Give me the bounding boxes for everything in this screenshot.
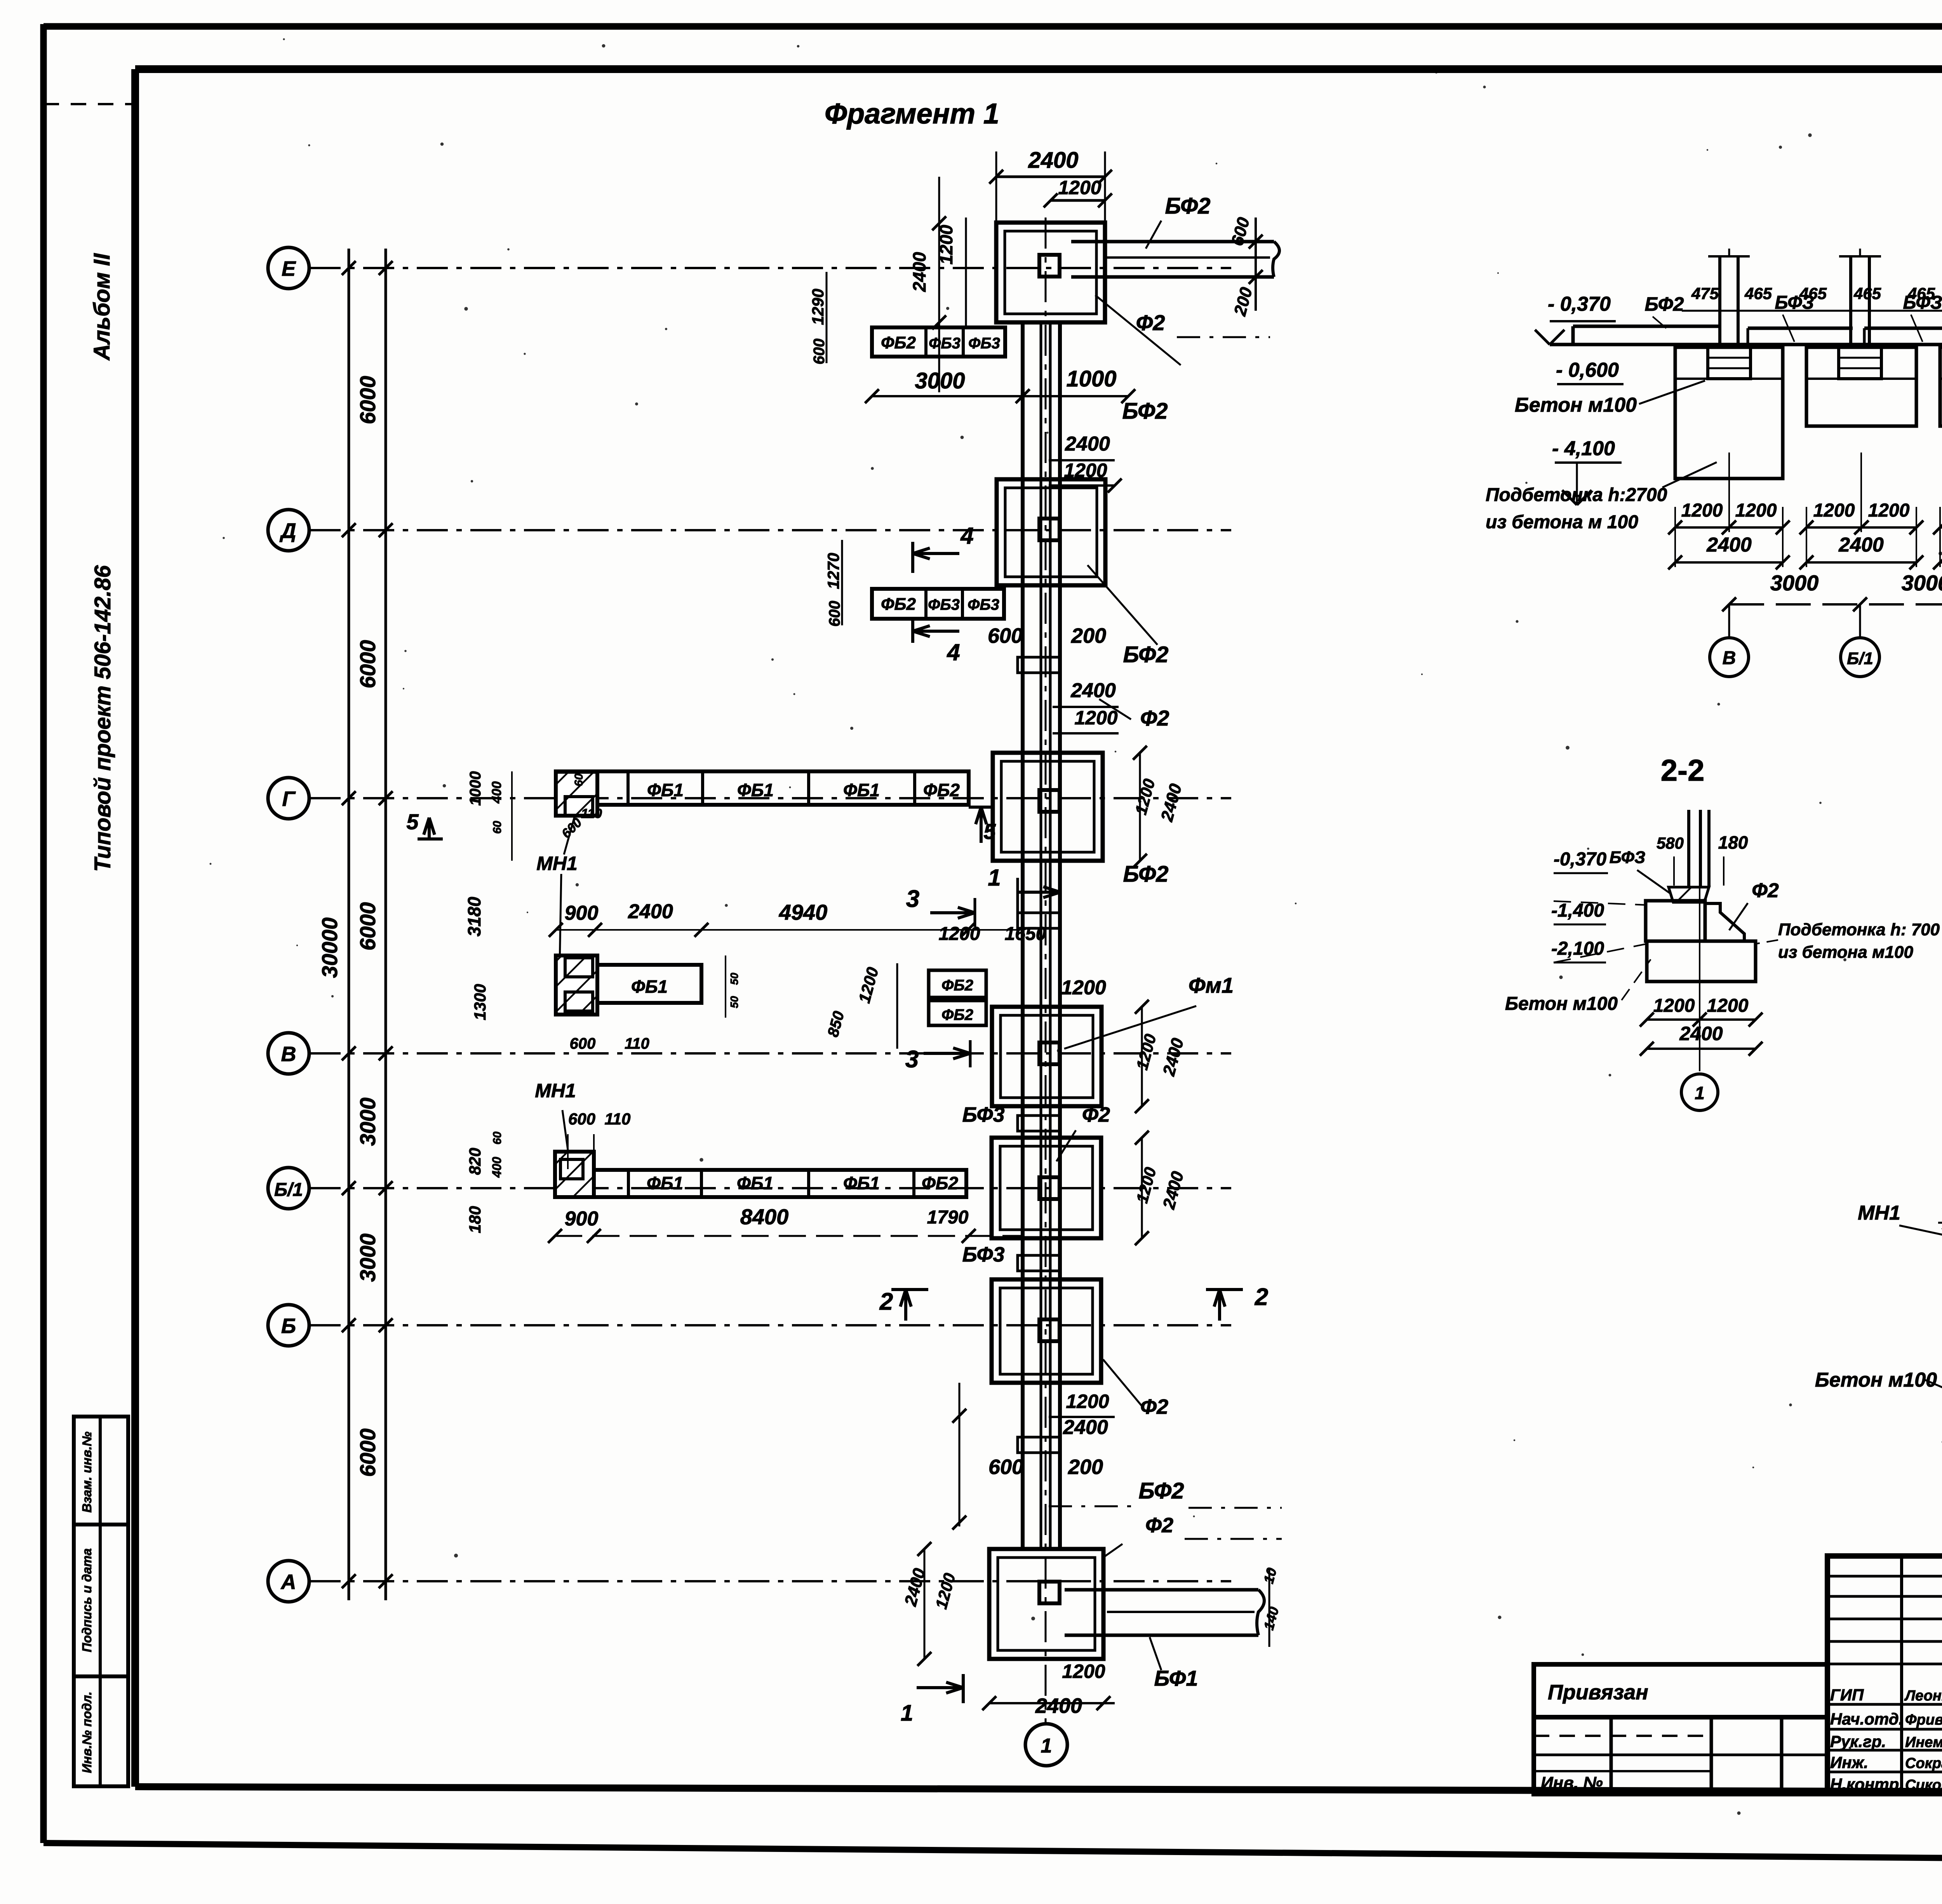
column mark at G xyxy=(1039,790,1060,812)
svg-text:3000: 3000 xyxy=(1902,571,1942,595)
svg-text:Подбетонка h: 700: Подбетонка h: 700 xyxy=(1778,920,1940,939)
scan speckle xyxy=(946,307,949,310)
svg-text:ФБ1: ФБ1 xyxy=(631,976,668,997)
block row at axis G west wing xyxy=(556,771,969,805)
outer border left xyxy=(40,24,47,1843)
svg-text:БФЗ: БФЗ xyxy=(1775,292,1814,313)
block row FB2 FB3 FB3 north of wall xyxy=(872,327,1005,357)
outer border top xyxy=(44,23,1942,30)
dim 3000 1000 under E xyxy=(872,395,1128,397)
svg-text:Е: Е xyxy=(282,257,296,280)
axis А circle xyxy=(268,1561,309,1602)
svg-text:1300: 1300 xyxy=(471,984,489,1020)
svg-text:Подпись и дата: Подпись и дата xyxy=(80,1548,94,1652)
svg-text:Нач.отд.: Нач.отд. xyxy=(1830,1710,1903,1728)
svg-text:ФБ2: ФБ2 xyxy=(941,1006,973,1023)
section 1-1 ground line xyxy=(1550,343,1942,346)
beam BF3 a xyxy=(1748,327,1853,330)
svg-text:БФ2: БФ2 xyxy=(1645,293,1684,315)
svg-text:Д: Д xyxy=(280,519,296,543)
section 2-2 bottom slab xyxy=(1647,941,1756,982)
svg-text:30000: 30000 xyxy=(317,917,342,978)
svg-text:1200: 1200 xyxy=(1066,1391,1109,1412)
svg-text:3180: 3180 xyxy=(464,896,484,936)
svg-text:2400: 2400 xyxy=(1028,148,1078,173)
svg-text:6000: 6000 xyxy=(355,376,380,425)
svg-text:2: 2 xyxy=(1255,1284,1268,1311)
svg-text:1200: 1200 xyxy=(1813,500,1855,521)
svg-text:2-2: 2-2 xyxy=(1661,753,1705,787)
dim chain inner xyxy=(385,249,387,1600)
svg-text:Ф2: Ф2 xyxy=(1082,1103,1110,1126)
svg-text:1200: 1200 xyxy=(1062,1660,1105,1682)
foundation F2 at axis A xyxy=(989,1549,1103,1659)
svg-text:2400: 2400 xyxy=(1035,1694,1082,1718)
dim 600 1290 far left of E xyxy=(826,272,828,363)
svg-text:Фм1: Фм1 xyxy=(1189,973,1234,997)
column mark at B xyxy=(1039,1319,1060,1341)
svg-text:6000: 6000 xyxy=(355,640,380,689)
svg-text:600: 600 xyxy=(988,1455,1023,1479)
foundation pit at B/1 xyxy=(1806,347,1916,426)
svg-text:ФБ3: ФБ3 xyxy=(968,596,999,613)
svg-text:50: 50 xyxy=(728,973,740,985)
svg-text:60: 60 xyxy=(573,773,585,787)
svg-text:В: В xyxy=(281,1043,296,1066)
svg-text:ФБ3: ФБ3 xyxy=(928,596,960,613)
svg-text:2400: 2400 xyxy=(1838,534,1884,556)
svg-text:600: 600 xyxy=(826,601,843,627)
svg-text:4940: 4940 xyxy=(779,900,828,924)
anchor block MN1 at G xyxy=(556,772,597,816)
axis Д datum line xyxy=(310,529,1231,531)
svg-text:ФБ2: ФБ2 xyxy=(881,595,916,614)
svg-text:Н.контр.: Н.контр. xyxy=(1830,1775,1904,1793)
svg-text:1200: 1200 xyxy=(1681,500,1723,521)
svg-text:Бетон м100: Бетон м100 xyxy=(1515,394,1637,416)
svg-text:110: 110 xyxy=(605,1110,631,1128)
svg-text:1270: 1270 xyxy=(824,553,842,589)
top small dims 475 465 xyxy=(1682,310,1942,312)
svg-text:Ф2: Ф2 xyxy=(1140,706,1169,730)
svg-text:4: 4 xyxy=(960,523,973,549)
title block revision grid xyxy=(1827,1575,1942,1578)
svg-text:Ф2: Ф2 xyxy=(1136,310,1165,335)
section 2-2 column lines xyxy=(1687,810,1690,887)
svg-text:МН1: МН1 xyxy=(1858,1202,1900,1224)
svg-text:1200: 1200 xyxy=(1868,500,1910,521)
svg-text:1000: 1000 xyxy=(1066,366,1116,392)
svg-text:5: 5 xyxy=(406,809,419,834)
block row at axis B/1 west wing xyxy=(555,1170,966,1197)
section 1-1 axis circles xyxy=(1728,604,1730,637)
svg-text:400: 400 xyxy=(490,1157,504,1178)
svg-text:ФБ3: ФБ3 xyxy=(929,335,961,352)
axis Г circle xyxy=(268,778,309,819)
svg-text:Бетон м100: Бетон м100 xyxy=(1505,994,1618,1014)
svg-text:820: 820 xyxy=(466,1148,484,1175)
foundation pit at V (deep) xyxy=(1675,347,1783,479)
section 2-2 upper foundation body xyxy=(1646,901,1705,941)
svg-text:Взам. инв.№: Взам. инв.№ xyxy=(80,1431,94,1512)
svg-text:1290: 1290 xyxy=(809,289,827,325)
svg-text:Инв.№ подл.: Инв.№ подл. xyxy=(80,1692,94,1773)
svg-text:Б: Б xyxy=(281,1314,296,1338)
section 2-2 top pad hatched xyxy=(1669,887,1709,902)
svg-text:4: 4 xyxy=(947,639,960,665)
svg-text:Инв. №: Инв. № xyxy=(1541,1773,1603,1793)
foundation F2 at axis E xyxy=(996,223,1105,322)
svg-text:ФБ1: ФБ1 xyxy=(647,1173,683,1193)
svg-text:БФ2: БФ2 xyxy=(1138,1478,1184,1504)
svg-text:3000: 3000 xyxy=(355,1098,380,1146)
svg-text:2400: 2400 xyxy=(1063,1416,1108,1439)
section cut 5 right xyxy=(980,807,983,843)
svg-text:6000: 6000 xyxy=(355,1429,380,1477)
svg-text:200: 200 xyxy=(1068,1455,1103,1479)
svg-text:60: 60 xyxy=(491,821,504,834)
svg-text:Б/1: Б/1 xyxy=(274,1180,303,1200)
svg-text:1200: 1200 xyxy=(939,924,980,944)
section cut 4 upper xyxy=(913,552,959,555)
axis А datum line xyxy=(310,1580,1231,1582)
column mark at B/1 xyxy=(1039,1177,1060,1199)
svg-text:3: 3 xyxy=(905,1046,919,1073)
svg-text:БФЗ: БФЗ xyxy=(1903,292,1942,313)
wall face line left xyxy=(1021,322,1025,1551)
foundation pit at B xyxy=(1940,347,1942,426)
svg-text:ФБ1: ФБ1 xyxy=(737,780,774,800)
svg-text:ФБ2: ФБ2 xyxy=(941,977,973,994)
svg-text:Типовой проект 506-142.86: Типовой проект 506-142.86 xyxy=(90,565,115,872)
axis Д circle xyxy=(268,510,309,551)
inner frame xyxy=(135,65,1942,73)
title block outline xyxy=(1827,1556,1942,1794)
svg-text:465: 465 xyxy=(1853,284,1881,303)
section cut 4 lower xyxy=(913,630,959,633)
cross beam at B span xyxy=(1018,1255,1060,1271)
svg-text:900: 900 xyxy=(565,902,599,924)
svg-text:БФ3: БФ3 xyxy=(962,1243,1004,1266)
svg-text:БФ2: БФ2 xyxy=(1123,861,1168,887)
svg-text:3: 3 xyxy=(906,886,919,912)
svg-text:МН1: МН1 xyxy=(536,853,578,874)
dim marks right of G block xyxy=(1139,753,1141,861)
svg-text:БФ2: БФ2 xyxy=(1122,399,1168,424)
svg-text:ГИП: ГИП xyxy=(1830,1686,1864,1704)
svg-text:900: 900 xyxy=(565,1208,599,1230)
axis Б circle xyxy=(268,1305,309,1346)
svg-text:580: 580 xyxy=(1657,834,1684,852)
svg-text:600: 600 xyxy=(811,339,828,365)
foundation F2 at axis G xyxy=(993,753,1103,861)
svg-text:Леонтьев: Леонтьев xyxy=(1904,1688,1942,1704)
svg-text:Рук.гр.: Рук.гр. xyxy=(1830,1732,1886,1751)
svg-text:1000: 1000 xyxy=(467,771,484,806)
svg-text:465: 465 xyxy=(1744,284,1772,303)
dims right of B1 block xyxy=(1141,1138,1143,1238)
svg-text:Подбетонка h:2700: Подбетонка h:2700 xyxy=(1486,485,1667,505)
svg-text:600: 600 xyxy=(988,624,1023,647)
svg-text:2400: 2400 xyxy=(628,900,673,923)
svg-text:60: 60 xyxy=(491,1131,504,1145)
svg-text:из бетона м100: из бетона м100 xyxy=(1778,943,1913,962)
dim 600 1270 left of D xyxy=(841,540,843,625)
wall column axis xyxy=(1045,218,1047,1725)
svg-text:1: 1 xyxy=(901,1700,913,1726)
svg-text:БФ2: БФ2 xyxy=(1165,193,1210,219)
svg-text:1200: 1200 xyxy=(1058,177,1101,198)
axis Б/1 circle xyxy=(268,1168,309,1209)
svg-text:Сикорева: Сикорева xyxy=(1905,1777,1942,1793)
svg-text:ФБ2: ФБ2 xyxy=(881,333,916,352)
wall face line right xyxy=(1058,322,1062,1549)
beam BF2 left xyxy=(1573,325,1721,328)
svg-text:В: В xyxy=(1723,648,1736,668)
svg-text:3000: 3000 xyxy=(355,1234,380,1282)
cross beam BF at D-G span xyxy=(1018,657,1060,673)
svg-text:БФ2: БФ2 xyxy=(1123,642,1168,667)
svg-text:1200: 1200 xyxy=(1653,996,1695,1016)
section 1-1 columns xyxy=(1718,256,1721,345)
svg-text:1650: 1650 xyxy=(1005,924,1046,944)
svg-text:- 0,600: - 0,600 xyxy=(1556,359,1619,381)
column mark at E xyxy=(1039,255,1060,277)
svg-text:Привязан: Привязан xyxy=(1548,1681,1648,1704)
svg-text:ФБ3: ФБ3 xyxy=(968,335,1000,352)
svg-text:475: 475 xyxy=(1691,284,1719,303)
dim row 900 8400 1790 under B/1 xyxy=(555,1235,1021,1237)
svg-text:ФБ2: ФБ2 xyxy=(923,780,960,800)
svg-text:2400: 2400 xyxy=(1679,1023,1723,1044)
axis Е circle xyxy=(268,247,309,289)
section 2-2 centreline xyxy=(1699,887,1700,1071)
section cut 1 bottom xyxy=(917,1686,963,1689)
column mark at A xyxy=(1039,1582,1060,1603)
anchor block MN1 at B/1 xyxy=(555,1152,594,1197)
left extension privyazan box xyxy=(1534,1664,1827,1717)
svg-text:2400: 2400 xyxy=(1065,433,1110,455)
left extension lower grid xyxy=(1534,1717,1827,1794)
svg-text:400: 400 xyxy=(489,781,504,804)
label F2 leader at E xyxy=(1095,295,1181,365)
svg-text:-2,100: -2,100 xyxy=(1551,938,1604,959)
svg-text:-0,370: -0,370 xyxy=(1554,849,1606,870)
svg-text:1790: 1790 xyxy=(927,1207,969,1228)
dim 1200 2400 left of E block xyxy=(938,177,940,392)
svg-text:110: 110 xyxy=(625,1035,649,1052)
svg-text:2400: 2400 xyxy=(1070,679,1116,702)
svg-text:2400: 2400 xyxy=(909,252,929,292)
axis Е datum line xyxy=(310,267,1231,269)
outer border bottom xyxy=(44,1843,1942,1864)
svg-text:Ф2: Ф2 xyxy=(1140,1395,1168,1418)
block row FB2 FB3 FB3 at D xyxy=(872,589,1004,619)
axis В circle xyxy=(268,1033,309,1074)
svg-text:ФБ1: ФБ1 xyxy=(647,780,684,800)
cross beam at B/1 span xyxy=(1018,1116,1060,1131)
dim 2400 above E xyxy=(996,176,1105,178)
dim 600 200 at beam end xyxy=(1255,218,1257,311)
svg-text:110: 110 xyxy=(581,806,602,821)
axis Б/1 datum line xyxy=(310,1187,1231,1189)
svg-text:Ф2: Ф2 xyxy=(1145,1514,1173,1537)
dim extension line left of B-A span xyxy=(959,1383,961,1526)
sidebar dashed mark xyxy=(44,103,135,105)
svg-text:2: 2 xyxy=(879,1288,893,1315)
section cut 2 right xyxy=(1218,1290,1221,1321)
foundation F2 at axis B(V) xyxy=(992,1007,1102,1106)
svg-text:- 0,370: - 0,370 xyxy=(1548,293,1611,315)
svg-text:600: 600 xyxy=(568,1110,595,1128)
svg-text:1200: 1200 xyxy=(1074,707,1117,729)
stacked blocks FB2 FB2 xyxy=(929,970,986,997)
svg-text:БФ3: БФ3 xyxy=(962,1103,1004,1126)
dim chain outer 30000 xyxy=(348,249,350,1600)
svg-text:180: 180 xyxy=(1718,832,1748,853)
column mark at V xyxy=(1039,1043,1060,1064)
beam BF2 east of E xyxy=(1071,240,1274,244)
svg-text:Б/1: Б/1 xyxy=(1847,649,1873,668)
svg-text:Бетон м100: Бетон м100 xyxy=(1815,1369,1937,1391)
cross beam BF at G-B span xyxy=(1018,913,1060,928)
svg-text:ФБ1: ФБ1 xyxy=(843,1173,880,1193)
column mark at D xyxy=(1039,519,1060,540)
svg-text:ФБ2: ФБ2 xyxy=(922,1173,958,1193)
beam BF3 b xyxy=(1864,327,1942,330)
svg-text:Инемировская: Инемировская xyxy=(1905,1734,1942,1751)
svg-text:1200: 1200 xyxy=(1707,996,1749,1016)
axis Г datum line xyxy=(310,797,1231,799)
svg-text:1200: 1200 xyxy=(1061,976,1106,999)
dim 1200 above E xyxy=(1051,199,1105,202)
block FB1 lower at G xyxy=(597,965,701,1003)
dims left of A 2400 1200 xyxy=(924,1549,926,1659)
section cut 2 left xyxy=(904,1290,907,1321)
svg-text:1: 1 xyxy=(1695,1083,1705,1103)
svg-text:Фрив: Фрив xyxy=(1905,1712,1942,1728)
svg-text:600: 600 xyxy=(570,1035,596,1052)
svg-text:Инж.: Инж. xyxy=(1830,1753,1868,1772)
svg-text:2400: 2400 xyxy=(1706,534,1752,556)
cross beam at B-A span xyxy=(1018,1437,1060,1453)
anchor block lower at G xyxy=(556,955,597,1015)
svg-text:Г: Г xyxy=(282,787,296,811)
svg-text:50: 50 xyxy=(728,996,740,1008)
svg-text:8400: 8400 xyxy=(740,1204,789,1229)
section 2-2 axis circle 1 xyxy=(1681,1074,1718,1110)
svg-text:- 4,100: - 4,100 xyxy=(1552,437,1615,460)
axis Б datum line xyxy=(310,1324,1231,1326)
axis circle 1 bottom of plan xyxy=(1025,1724,1067,1766)
svg-text:Фрагмент 1: Фрагмент 1 xyxy=(825,97,999,130)
foundation F2 at axis B/1 xyxy=(992,1138,1101,1238)
svg-text:1: 1 xyxy=(1041,1735,1052,1757)
svg-text:6000: 6000 xyxy=(355,902,380,951)
svg-text:5: 5 xyxy=(983,819,996,844)
svg-text:1200: 1200 xyxy=(1735,500,1777,521)
svg-text:А: А xyxy=(280,1570,296,1594)
foundation beam edge lines xyxy=(1040,322,1042,1550)
svg-text:БФЗ: БФЗ xyxy=(1610,848,1646,867)
svg-text:180: 180 xyxy=(466,1206,484,1233)
foundation F2 at axis D xyxy=(997,479,1105,585)
svg-text:из бетона м 100: из бетона м 100 xyxy=(1486,512,1638,533)
svg-text:Альбом II: Альбом II xyxy=(89,253,115,361)
foundation F2 at axis B xyxy=(992,1279,1101,1383)
svg-text:Ф2: Ф2 xyxy=(1752,879,1779,902)
sidebar stamp table xyxy=(74,1417,128,1786)
svg-text:3000: 3000 xyxy=(915,368,965,393)
beam BF1 east of A xyxy=(1065,1588,1258,1592)
section 2-2 right steps xyxy=(1705,903,1744,941)
svg-text:Сократова: Сократова xyxy=(1905,1755,1942,1772)
svg-text:ФБ1: ФБ1 xyxy=(737,1173,773,1193)
svg-text:1: 1 xyxy=(988,865,1001,891)
section 1-1 axis dims 3000 3000 6000 xyxy=(1729,603,1942,606)
section cut 5 left xyxy=(428,818,431,839)
dims right of V block xyxy=(1141,1007,1143,1106)
svg-text:200: 200 xyxy=(1071,624,1106,647)
svg-text:3000: 3000 xyxy=(1770,571,1819,595)
svg-text:1200: 1200 xyxy=(936,225,956,265)
axis В datum line xyxy=(310,1052,1231,1055)
svg-text:ФБ1: ФБ1 xyxy=(843,780,880,800)
svg-text:МН1: МН1 xyxy=(535,1080,576,1102)
